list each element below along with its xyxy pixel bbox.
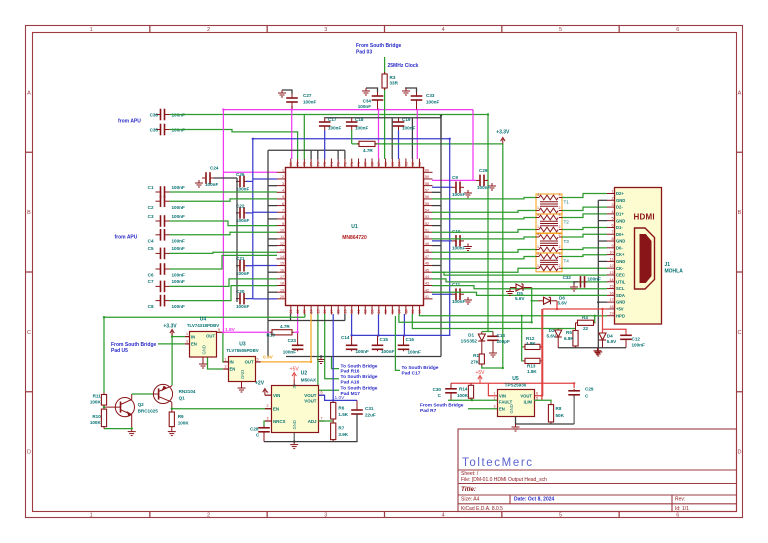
svg-text:70: 70 <box>357 162 361 166</box>
wire magenta U4 OUT <box>222 331 223 333</box>
wire black stub to U1 left pin <box>268 185 277 187</box>
wire black stub to U1 left pin <box>268 245 277 247</box>
svg-text:Title:: Title: <box>461 486 476 493</box>
svg-text:100K: 100K <box>457 393 469 398</box>
capacitor C2 100nF <box>161 195 165 207</box>
svg-text:R10: R10 <box>267 332 276 337</box>
svg-text:1: 1 <box>537 264 539 268</box>
svg-text:19: 19 <box>610 312 614 316</box>
svg-text:100nF: 100nF <box>381 349 394 354</box>
title block row line 2 <box>458 483 737 485</box>
U3 pin OUT <box>255 361 261 363</box>
wire green clock vertical <box>384 57 386 74</box>
svg-text:71: 71 <box>350 162 354 166</box>
J1 pin 19 HPD <box>607 315 615 317</box>
svg-text:3: 3 <box>282 182 284 186</box>
wire magenta 1.8V to R10 <box>223 331 270 333</box>
svg-text:34: 34 <box>377 310 381 314</box>
wire green TMDS to HDMI <box>562 267 607 269</box>
junction dot <box>440 115 442 117</box>
svg-text:2: 2 <box>267 404 269 408</box>
svg-text:Pad C17: Pad C17 <box>402 371 421 377</box>
svg-text:U3: U3 <box>239 341 246 347</box>
svg-text:2: 2 <box>494 397 496 401</box>
svg-text:100nF: 100nF <box>172 273 185 278</box>
svg-text:From South Bridge: From South Bridge <box>420 403 464 409</box>
svg-text:19: 19 <box>280 288 284 292</box>
svg-text:1: 1 <box>494 392 496 396</box>
U4 pin IN <box>185 336 190 338</box>
wire blue cap C20 link <box>246 298 253 300</box>
title block outline <box>458 429 737 512</box>
U1 right pin 60 <box>424 171 433 173</box>
U1 left pin 7 <box>277 211 286 213</box>
svg-text:GND: GND <box>202 345 207 354</box>
svg-text:VOUT: VOUT <box>304 393 317 398</box>
wire green C36 drop to D1 branch <box>487 115 489 332</box>
wire black HDMI gnd stub <box>598 260 607 262</box>
svg-text:9: 9 <box>282 222 284 226</box>
ground U3 <box>238 385 246 392</box>
svg-text:22uF: 22uF <box>365 413 376 418</box>
wire green C7 to U1 pin 17 <box>170 279 278 287</box>
wire green TMDS to HDMI <box>562 207 607 210</box>
svg-text:32: 32 <box>364 310 368 314</box>
svg-text:33R: 33R <box>390 81 399 86</box>
svg-text:C3: C3 <box>148 214 154 219</box>
svg-text:GND: GND <box>616 198 625 203</box>
svg-text:38: 38 <box>404 310 408 314</box>
wire black cap gnd bus top <box>325 118 441 138</box>
svg-text:C36: C36 <box>150 112 159 117</box>
U1 left pin 6 <box>277 205 286 207</box>
svg-text:29: 29 <box>343 310 347 314</box>
svg-text:To South Bridge: To South Bridge <box>341 374 378 380</box>
svg-text:D4: D4 <box>607 334 613 339</box>
svg-text:2: 2 <box>559 264 561 268</box>
svg-text:CK+: CK+ <box>616 252 625 257</box>
U1 top pin 70 <box>358 159 360 168</box>
svg-text:51: 51 <box>425 228 429 232</box>
resistor R11 100K <box>103 393 105 395</box>
capacitor C15 100nF <box>377 335 379 345</box>
svg-text:5: 5 <box>559 513 562 519</box>
svg-text:100nF: 100nF <box>408 350 421 355</box>
svg-text:100nF: 100nF <box>355 126 368 131</box>
resistor R10 4.7R <box>270 331 272 333</box>
HDMI plug icon <box>635 228 655 289</box>
wire blue cap C25 link <box>246 180 253 182</box>
U3 pin EN <box>223 368 228 370</box>
svg-text:61: 61 <box>418 162 422 166</box>
wire red D4 branch <box>602 309 604 333</box>
svg-text:100K: 100K <box>90 400 102 405</box>
svg-text:from APU: from APU <box>118 119 141 125</box>
svg-text:Q1: Q1 <box>179 396 186 401</box>
wire black HDMI gnd stub <box>598 301 607 303</box>
svg-text:ToltecMerc: ToltecMerc <box>462 457 534 469</box>
svg-text:3.9K: 3.9K <box>338 432 348 437</box>
wire green U1 to choke <box>432 230 536 233</box>
capacitor C11 100nF with ground <box>456 288 460 300</box>
svg-text:49: 49 <box>425 242 429 246</box>
svg-text:GND: GND <box>616 239 625 244</box>
svg-text:D0+: D0+ <box>616 232 624 237</box>
svg-text:C2: C2 <box>148 205 154 210</box>
capacitor C29b C <box>568 391 580 395</box>
junction dot <box>449 138 451 140</box>
U1 right pin 41 <box>424 298 433 300</box>
svg-text:100nF: 100nF <box>452 192 465 197</box>
svg-text:GND: GND <box>240 370 245 379</box>
svg-text:SCL: SCL <box>616 286 625 291</box>
wire magenta U1 right pin to C29 <box>432 179 476 181</box>
svg-text:From South Bridge: From South Bridge <box>356 43 401 49</box>
svg-text:IN: IN <box>292 384 297 388</box>
svg-text:1.8V: 1.8V <box>225 327 236 333</box>
svg-text:ADJ: ADJ <box>308 419 317 424</box>
junction dot <box>103 316 105 318</box>
power flag +5V at U5 <box>478 376 482 383</box>
title block divider date <box>509 495 511 504</box>
capacitor C24 100nF with ground <box>206 172 210 184</box>
wire red rail to C29 <box>542 383 574 388</box>
svg-text:50K: 50K <box>556 413 565 418</box>
U1 bottom pin 39 <box>412 306 414 315</box>
svg-text:4: 4 <box>282 188 284 192</box>
wire green C5 to U1 pin 13 <box>170 252 278 253</box>
svg-text:R10: R10 <box>92 414 101 419</box>
wire blue stub U1 pin 2 <box>253 178 277 180</box>
svg-text:100nF: 100nF <box>426 100 439 105</box>
capacitor C18 100nF <box>346 122 358 126</box>
svg-text:3: 3 <box>494 405 496 409</box>
svg-text:MN864720: MN864720 <box>342 235 367 241</box>
wire green TMDS to HDMI <box>562 248 607 250</box>
svg-text:A: A <box>738 90 742 96</box>
wire red +5V rail down <box>542 309 544 396</box>
svg-text:50: 50 <box>425 235 429 239</box>
U1 right pin 51 <box>424 231 433 233</box>
U1 bottom pin 38 <box>405 306 407 315</box>
svg-text:B: B <box>27 210 31 216</box>
U1 top pin 71 <box>351 159 353 168</box>
wire green C36 branch to U1 pin 78 <box>303 115 305 160</box>
U1 right pin 49 <box>424 245 433 247</box>
capacitor C35 100nF <box>161 124 165 136</box>
J1 pin 4 D1+ <box>607 213 615 215</box>
svg-text:30: 30 <box>350 310 354 314</box>
U1 top pin 67 <box>378 159 380 168</box>
svg-text:D: D <box>27 450 31 456</box>
wire green HPD net <box>419 314 594 323</box>
svg-text:16: 16 <box>610 291 614 295</box>
junction dot <box>541 382 543 384</box>
ground U2 <box>290 442 298 449</box>
diode D5 5.6V with ground <box>516 284 523 291</box>
transistor Q2 BRC1025 <box>104 394 135 429</box>
wire green TMDS to HDMI <box>562 255 607 257</box>
svg-text:VIN: VIN <box>273 393 280 398</box>
U1 left pin 13 <box>277 251 286 253</box>
svg-text:57: 57 <box>425 188 429 192</box>
U1 bottom pin 21 <box>290 306 292 315</box>
wire green H to ESD riser <box>399 288 532 323</box>
svg-text:2: 2 <box>612 196 614 200</box>
svg-text:C9: C9 <box>452 175 458 180</box>
svg-text:43: 43 <box>425 282 429 286</box>
U1 bottom pin 23 <box>303 306 305 315</box>
svg-text:CK-: CK- <box>616 266 624 271</box>
wire green HPD into pin <box>595 315 607 317</box>
frame column tick <box>384 26 386 33</box>
svg-text:17: 17 <box>610 298 614 302</box>
junction dot <box>531 315 533 317</box>
wire green D6 left lead link <box>532 300 538 302</box>
svg-text:C: C <box>27 330 31 336</box>
junction dot <box>594 315 596 317</box>
svg-text:VOUT: VOUT <box>304 399 317 404</box>
svg-text:C23: C23 <box>288 338 297 343</box>
svg-text:5: 5 <box>257 357 259 361</box>
ground R9 <box>168 429 176 436</box>
resistor R10b 100K <box>103 407 105 409</box>
svg-text:46: 46 <box>425 262 429 266</box>
U1 top pin 69 <box>364 159 366 168</box>
power flag +5V at U2 <box>292 373 296 380</box>
svg-text:Pad U5: Pad U5 <box>111 348 128 354</box>
svg-text:45: 45 <box>425 268 429 272</box>
title block divider rev <box>671 495 673 512</box>
wire blue cap C17 bottom to U1 pin 75 <box>324 130 326 159</box>
svg-text:A: A <box>27 90 31 96</box>
capacitor C22 100nF <box>240 207 244 219</box>
svg-text:6: 6 <box>676 513 679 519</box>
svg-text:100nF: 100nF <box>402 126 415 131</box>
wire black cap stubs <box>351 117 353 119</box>
junction dot <box>383 143 385 145</box>
svg-text:Rev:: Rev: <box>675 497 685 503</box>
U1 top pin 77 <box>310 159 312 168</box>
svg-text:78: 78 <box>303 162 307 166</box>
svg-text:3: 3 <box>559 252 561 256</box>
resistor R9 100K <box>171 410 173 412</box>
U4 pin OUT <box>217 331 223 333</box>
U1 left pin 10 <box>277 231 286 233</box>
svg-text:OUT: OUT <box>206 334 215 339</box>
wire black stub U1 right pin <box>432 265 441 267</box>
resistor R6 1.5K <box>332 400 334 402</box>
svg-text:C15: C15 <box>380 337 389 342</box>
svg-text:VIN: VIN <box>499 394 506 399</box>
svg-text:R7: R7 <box>338 426 344 431</box>
frame column tick <box>618 26 620 33</box>
svg-text:1.8K: 1.8K <box>526 341 536 346</box>
wire magenta U1 pin 1 <box>223 171 277 173</box>
svg-text:100nF: 100nF <box>172 205 185 210</box>
wire magenta right vertical <box>472 110 474 181</box>
wire green CEC long <box>432 272 607 275</box>
U4 pin EN <box>185 343 190 345</box>
U1 right pin 59 <box>424 178 433 180</box>
svg-text:35: 35 <box>384 310 388 314</box>
wire green +3.3V drop right <box>502 144 504 368</box>
U1 top pin 64 <box>398 159 400 168</box>
svg-text:6: 6 <box>321 391 323 395</box>
wire blue stub C11 <box>432 293 452 295</box>
capacitor C33 100nF with ground <box>411 96 423 100</box>
svg-text:65: 65 <box>391 162 395 166</box>
svg-text:U2: U2 <box>301 371 308 377</box>
svg-text:3: 3 <box>559 193 561 197</box>
wire green U4 OUT to U3 IN <box>223 332 229 362</box>
wire black HDMI gnd stub <box>598 220 607 222</box>
wire green C4 to U1 pin 10 <box>170 232 278 235</box>
J1 pin 2 GND <box>607 199 615 201</box>
U1 bottom pin 30 <box>351 306 353 315</box>
wire black stub to U1 left pin <box>268 218 277 220</box>
title block row line 3 <box>458 494 737 496</box>
svg-text:1: 1 <box>90 513 93 519</box>
svg-text:100nF: 100nF <box>205 182 218 187</box>
wire black stub U1 pin 73 <box>337 150 339 159</box>
svg-text:100nF: 100nF <box>236 271 249 276</box>
wire magenta vertical to U1 pin 61 <box>416 110 418 159</box>
svg-text:C30: C30 <box>433 387 442 392</box>
svg-text:2: 2 <box>559 245 561 249</box>
junction dot <box>601 308 603 310</box>
svg-text:C1: C1 <box>148 185 154 190</box>
wire green U1 pin 23 drop <box>304 314 306 317</box>
junction dot <box>320 355 322 357</box>
svg-text:13: 13 <box>280 248 284 252</box>
svg-text:1SS352: 1SS352 <box>461 339 478 344</box>
svg-text:5: 5 <box>218 328 220 332</box>
wire red D6 to +5V rail <box>556 301 558 309</box>
resistor R14 100K <box>470 383 472 385</box>
svg-text:R8: R8 <box>556 406 562 411</box>
wire black top gnd bus <box>268 149 345 151</box>
wire green SCL long <box>432 286 607 289</box>
wire black right gnd rail <box>440 116 442 357</box>
U1 left pin 1 <box>277 171 286 173</box>
U1 left pin 11 <box>277 238 286 240</box>
wire blue right vertical <box>449 139 451 336</box>
wire blue cap C21 link <box>246 265 253 267</box>
svg-text:76: 76 <box>316 162 320 166</box>
svg-text:C6: C6 <box>148 273 154 278</box>
U2 pin VOUT1 <box>319 394 325 396</box>
svg-text:R13: R13 <box>527 364 536 369</box>
svg-text:48: 48 <box>425 248 429 252</box>
wire green U1 to choke <box>432 257 536 259</box>
wire green TMDS to HDMI <box>562 194 607 198</box>
junction dot <box>403 334 405 336</box>
svg-text:File: [DM-01.0 HDMI Output Hea: File: [DM-01.0 HDMI Output Head_sch <box>461 477 547 483</box>
svg-text:TLV75505PDBV: TLV75505PDBV <box>226 348 258 353</box>
frame column tick <box>149 26 151 33</box>
svg-text:MOHLA: MOHLA <box>665 269 684 275</box>
svg-text:27: 27 <box>330 310 334 314</box>
U1 right pin 47 <box>424 258 433 260</box>
U1 bottom pin 33 <box>371 306 373 315</box>
junction dot <box>377 108 379 110</box>
svg-text:100nF: 100nF <box>452 246 465 251</box>
wire black stub U1 pin 77 <box>310 150 312 159</box>
wire black stub U1 right pin <box>432 191 441 193</box>
U1 top pin 65 <box>391 159 393 168</box>
svg-text:15: 15 <box>280 262 284 266</box>
U1 right pin 44 <box>424 278 433 280</box>
svg-text:100K: 100K <box>178 421 190 426</box>
wire green Q2 base rail <box>104 428 132 430</box>
svg-text:12: 12 <box>280 242 284 246</box>
svg-text:D1-: D1- <box>616 225 623 230</box>
svg-text:6: 6 <box>282 202 284 206</box>
resistor R2 4.7R inline <box>357 143 359 145</box>
resistor R8 50K <box>550 403 552 405</box>
junction dot <box>573 382 575 384</box>
svg-text:+3.3V: +3.3V <box>496 130 510 136</box>
power flag +3.3V top <box>501 138 505 145</box>
svg-text:100nF: 100nF <box>172 304 185 309</box>
junction dot <box>103 406 105 408</box>
wire black caps left links <box>237 180 238 182</box>
U1 top pin 79 <box>297 159 299 168</box>
wire blue VOUT to C31 <box>333 399 357 401</box>
svg-text:2: 2 <box>207 27 210 33</box>
wire blue stub C9 <box>432 186 452 188</box>
svg-text:100nF: 100nF <box>356 349 369 354</box>
wire green Pad R16 stub <box>332 357 340 369</box>
wire black esd gnd bus <box>558 347 626 349</box>
U1 right pin 54 <box>424 211 433 213</box>
U2 pin ADJ <box>319 420 325 422</box>
svg-text:OUT: OUT <box>245 360 254 365</box>
svg-text:IN: IN <box>230 360 234 365</box>
svg-text:63: 63 <box>404 162 408 166</box>
svg-text:20: 20 <box>280 295 284 299</box>
connector J1 HDMI body <box>615 188 662 325</box>
svg-text:Date: Oct 8, 2024: Date: Oct 8, 2024 <box>514 497 555 503</box>
capacitor C8 100nF <box>161 295 165 307</box>
wire blue cap C22 link <box>246 212 253 214</box>
wire black drop U1 pin 65 <box>391 118 393 159</box>
junction dot <box>377 334 379 336</box>
wire green U1 to choke <box>432 198 536 199</box>
transformer T3 common-mode choke <box>536 233 569 254</box>
svg-text:C33: C33 <box>426 93 435 98</box>
U1 left pin 19 <box>277 291 286 293</box>
diode D2 5.6V <box>557 329 559 331</box>
wire green EN U4 <box>158 343 185 345</box>
svg-text:25: 25 <box>316 310 320 314</box>
wire black decoupling bus <box>286 356 441 358</box>
svg-text:41: 41 <box>425 295 429 299</box>
svg-text:14: 14 <box>280 255 284 259</box>
U1 right pin 57 <box>424 191 433 193</box>
junction dot <box>471 399 473 401</box>
J1 pin 6 D1- <box>607 226 615 228</box>
wire blue stub U1 pin 15 <box>253 265 277 267</box>
svg-text:100nF: 100nF <box>172 185 185 190</box>
svg-text:39: 39 <box>411 310 415 314</box>
ground Q2 emitter <box>128 429 136 436</box>
wire green C8 to U1 pin 18 <box>170 286 278 301</box>
svg-text:C12: C12 <box>632 337 641 342</box>
wire magenta vertical to U1 pin 80 <box>291 110 293 159</box>
svg-text:52: 52 <box>425 222 429 226</box>
